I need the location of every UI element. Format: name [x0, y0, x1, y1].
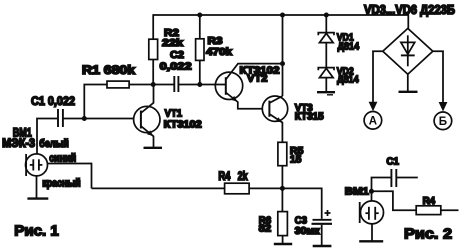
svg-text:0,022: 0,022 [160, 61, 192, 73]
svg-text:Д814: Д814 [338, 41, 360, 53]
svg-text:470k: 470k [206, 46, 232, 58]
wire bridge right output to B [433, 51, 443, 103]
node R3-base junction [197, 82, 202, 87]
resistor R5 [278, 142, 287, 165]
node VT2-VT3 collector junction [280, 61, 285, 66]
wire bridge left output to A [373, 51, 383, 103]
wire R5 bottom to node [281, 166, 283, 189]
arrow to node A [369, 102, 378, 112]
arrow to node B [439, 102, 448, 112]
ground C3 [313, 245, 332, 247]
node A terminal [364, 112, 382, 130]
svg-text:Б: Б [439, 116, 447, 128]
wire C1 left to microphone top [37, 119, 58, 154]
resistor R4 fig2 [416, 206, 441, 215]
wire R2 bottom to bias node [152, 60, 154, 85]
svg-text:ВМ1: ВМ1 [345, 186, 369, 198]
svg-text:Рис. 2: Рис. 2 [404, 226, 452, 243]
node C1-R1 junction [82, 116, 87, 121]
wire R6 bottom [282, 236, 284, 244]
svg-text:Д814: Д814 [337, 74, 359, 86]
svg-text:R4: R4 [218, 169, 230, 183]
ground zener chain [317, 92, 335, 95]
capacitor C2 [174, 76, 178, 92]
wire R4 right stub fig2 [441, 209, 459, 211]
wire mic top lead fig2 [371, 191, 373, 201]
node B terminal [434, 112, 452, 130]
svg-text:VT2: VT2 [247, 73, 268, 85]
wire blue lead to bottom rail [48, 164, 92, 189]
transistor VT3 [262, 96, 287, 142]
svg-text:C2: C2 [170, 49, 184, 61]
capacitor C3 [282, 188, 321, 219]
ground microphone BM1 [27, 197, 48, 199]
wire rail to R2 top [152, 14, 154, 39]
svg-text:C1 0,022: C1 0,022 [31, 94, 75, 108]
wire C2 right to VT2 base [178, 84, 225, 86]
microphone BM1 [26, 154, 48, 176]
wire C1 right to VT1 base [63, 118, 134, 120]
node R1-R2-collector-C2 junction [151, 82, 156, 87]
svg-text:VD3...VD6 Д223Б: VD3...VD6 Д223Б [364, 3, 455, 17]
wire rail to R3 top [199, 15, 201, 39]
transistor VT1 [134, 85, 160, 148]
svg-text:C1: C1 [386, 156, 399, 168]
svg-text:КТ3102: КТ3102 [164, 119, 202, 131]
wire mic bottom fig2 [371, 224, 373, 241]
node mic junction fig2 [369, 189, 374, 194]
wire to C1 fig2 [372, 178, 392, 192]
node rail-zener junction [324, 13, 329, 18]
svg-text:30мк: 30мк [295, 225, 321, 237]
diode VD2 zener [318, 68, 334, 78]
ground R6 [274, 243, 292, 245]
wire R3 bottom to VT2 base wire [199, 60, 201, 84]
resistor R1 [107, 81, 129, 88]
wire microphone bottom to ground [36, 176, 38, 198]
capacitor C1 fig2 [391, 169, 396, 187]
wire C1 right stub fig2 [396, 177, 418, 179]
bridge rectifier VD3-VD6 [383, 28, 433, 74]
wire rail to VD1 [325, 15, 327, 33]
svg-text:МЭК-3: МЭК-3 [2, 136, 35, 150]
svg-text:R1 680k: R1 680k [82, 63, 135, 77]
node rail-R3 junction [197, 13, 202, 18]
wire R1 left to VT1 base [84, 85, 107, 119]
wire to R4 fig2 [372, 191, 417, 210]
svg-text:белый: белый [39, 138, 69, 150]
node rail-collector junction [280, 13, 285, 18]
diode VD1 zener [318, 33, 334, 43]
svg-text:красный: красный [42, 178, 80, 190]
wire rail to bridge top [407, 14, 409, 28]
svg-text:2k: 2k [238, 169, 248, 183]
wire bottom signal rail [92, 187, 225, 189]
svg-text:15: 15 [290, 154, 302, 166]
node R4-R5-R6-C3 junction [280, 186, 285, 191]
transistor VT2 [215, 64, 282, 109]
resistor R6 [281, 188, 283, 211]
wire VD1 to VD2 [325, 43, 327, 68]
capacitor C1 [58, 109, 63, 127]
ground bridge [399, 91, 418, 93]
svg-text:А: А [369, 116, 377, 128]
wire R4 to emitter node [249, 187, 282, 189]
ground VT1 emitter [144, 147, 163, 149]
svg-text:Рис. 1: Рис. 1 [14, 223, 58, 240]
wire VD2 to ground [325, 78, 327, 92]
ground microphone fig2 [359, 240, 383, 242]
wire top supply rail [153, 14, 408, 16]
svg-text:82: 82 [259, 223, 272, 235]
resistor R3 [196, 39, 204, 61]
wire collector line VT2-VT3 to rail [282, 15, 284, 96]
wire C3 bottom [321, 225, 323, 245]
svg-text:22k: 22k [162, 37, 183, 49]
wire R1 right to VT1 collector node [129, 84, 174, 86]
resistor R2 [149, 39, 158, 59]
microphone BM1 fig2 [360, 201, 384, 224]
svg-text:R4: R4 [423, 195, 436, 207]
wire bridge bottom to ground [407, 74, 409, 91]
resistor R4 [225, 183, 250, 194]
svg-text:КТ315: КТ315 [295, 110, 324, 122]
